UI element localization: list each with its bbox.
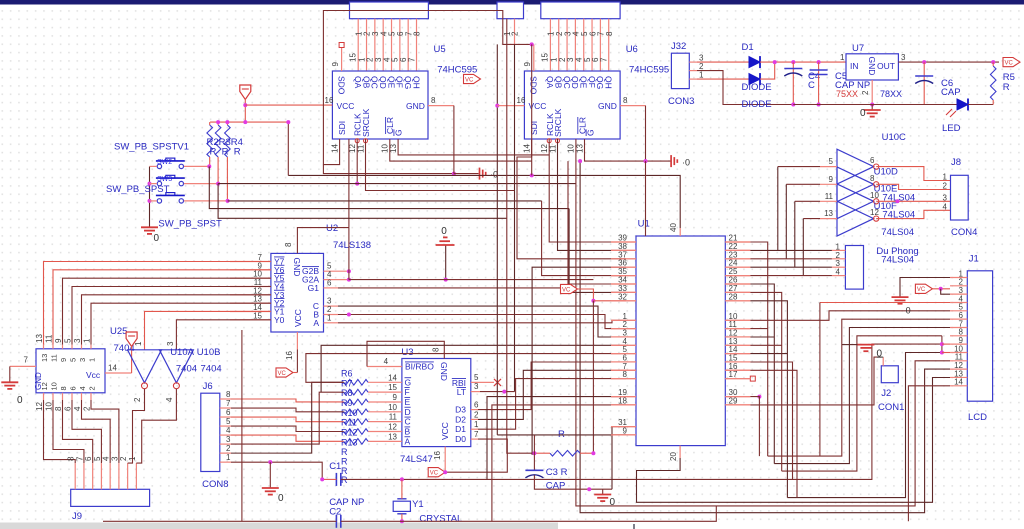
power flag near U5	[464, 74, 481, 83]
svg-text:U2: U2	[326, 223, 338, 234]
inverter U10E 74LS04	[837, 184, 879, 219]
svg-text:12: 12	[35, 402, 44, 411]
wire U2 C row to U1 pin3	[338, 306, 626, 337]
svg-text:CON3: CON3	[668, 96, 694, 107]
svg-text:5: 5	[829, 157, 834, 166]
junction C1 left node	[320, 477, 324, 481]
ground symbol at U7	[864, 110, 881, 117]
svg-text:14: 14	[522, 144, 531, 153]
wire U25 flag stem	[131, 346, 133, 374]
resistor R8	[344, 399, 368, 405]
junction C4 top	[791, 60, 795, 64]
svg-text:U7: U7	[852, 43, 864, 54]
svg-text:8: 8	[413, 31, 422, 36]
wire U5 G down	[398, 139, 549, 155]
junction switch bus row2	[148, 182, 152, 186]
wire U1 pin5 riser to R6 G row	[306, 354, 626, 383]
J2 pin1 stub	[882, 357, 884, 366]
wire SW1 drop branch	[209, 166, 569, 208]
junction pin32 node	[591, 299, 595, 303]
svg-text:U3: U3	[401, 347, 413, 358]
svg-text:14: 14	[954, 378, 963, 387]
svg-text:R13: R13	[341, 437, 358, 447]
svg-text:8: 8	[226, 390, 231, 399]
svg-text:2: 2	[83, 406, 92, 411]
junction SW1/R2	[207, 164, 211, 168]
wire U25 pin 8 to J9	[63, 400, 93, 463]
wire J6 pin4 to resistor	[231, 435, 344, 441]
inverter U10A 7404	[128, 350, 162, 389]
svg-text:5: 5	[93, 456, 102, 461]
capacitor C1 plates	[336, 473, 340, 486]
svg-text:10: 10	[870, 191, 879, 200]
wire J1 pin1 to ground	[900, 278, 950, 298]
junction gnd rail	[587, 487, 591, 491]
svg-text:IN: IN	[850, 61, 859, 71]
svg-text:J32: J32	[671, 41, 686, 52]
svg-text:0: 0	[610, 497, 616, 508]
SW2 right stub	[184, 183, 218, 185]
wire U1 pin25 to Du Phong	[750, 275, 832, 277]
svg-text:74LS04: 74LS04	[881, 254, 914, 265]
svg-text:VC: VC	[278, 371, 287, 377]
wire R left lead	[534, 452, 550, 454]
connector P3 pin 6 wire to U6	[591, 19, 593, 71]
svg-text:8: 8	[54, 406, 63, 411]
wire U6 G row tap to U1 pin34	[568, 161, 626, 284]
svg-text:SRCLK: SRCLK	[553, 108, 563, 137]
svg-text:14: 14	[388, 373, 397, 382]
wire U1 pin14 branch	[750, 353, 787, 355]
U1 pin17 no-connect	[750, 376, 755, 381]
svg-text:3: 3	[901, 53, 906, 62]
wire flag to J1 pin2	[932, 288, 950, 290]
inverter U10B 7404	[159, 350, 193, 389]
svg-text:1: 1	[474, 420, 479, 429]
ground symbol inverted on G2A row	[436, 237, 455, 245]
wire U1 pin4 riser to R7 F row	[321, 345, 626, 392]
wire U6 GND drop	[645, 106, 647, 162]
svg-text:D1: D1	[742, 42, 754, 53]
connector P1 pin 1 wire to U5	[357, 19, 359, 71]
capacitor C5	[810, 70, 828, 75]
connector P3 pin 3 wire to U6	[566, 19, 568, 71]
svg-text:D3: D3	[455, 405, 466, 415]
svg-text:74LS47: 74LS47	[400, 454, 433, 465]
sheet top border bar	[0, 0, 1024, 5]
svg-text:Y1: Y1	[412, 499, 424, 510]
U2 VCC pin16 stub	[296, 332, 298, 350]
wire flag stem	[244, 99, 246, 123]
svg-text:13: 13	[35, 334, 44, 343]
connector P1 pin 4 wire to U5	[382, 19, 384, 71]
wire U1 pin9 row to C3 vertical	[497, 434, 626, 436]
wire U2 A row to U1 pin1	[338, 320, 626, 323]
wire U5 GND down	[453, 106, 455, 174]
wire U5 RCLK down	[356, 139, 358, 184]
svg-text:A: A	[313, 318, 319, 328]
svg-text:VCC: VCC	[337, 101, 355, 111]
svg-text:U10D: U10D	[874, 167, 898, 178]
wire U1 pin20 net	[637, 378, 951, 503]
wire U3 D0 to VCC node	[445, 439, 507, 472]
wire R3 top lead	[217, 122, 219, 125]
wire U1 pin23 to Du Phong	[750, 258, 832, 260]
svg-text:6: 6	[84, 456, 93, 461]
U5 clock pin bubbles	[355, 139, 367, 143]
svg-text:4: 4	[943, 202, 948, 211]
svg-text:6: 6	[69, 386, 78, 390]
svg-text:DIODE: DIODE	[742, 82, 772, 93]
wire C6 vertical	[923, 62, 925, 104]
svg-text:CON8: CON8	[202, 479, 228, 490]
junction R left	[532, 451, 536, 455]
svg-text:GND: GND	[439, 362, 449, 381]
svg-text:0: 0	[278, 493, 284, 504]
connector P1 pin 7 wire to U5	[407, 19, 409, 71]
svg-text:J8: J8	[951, 157, 961, 168]
wire SW2 drop branch	[218, 184, 507, 219]
wire nest M2 to J1 pin7	[774, 328, 950, 464]
wire U7 gnd drop	[871, 105, 873, 111]
svg-text:J1: J1	[969, 253, 979, 264]
svg-text:SDI: SDI	[337, 121, 347, 135]
wire gnd stem	[602, 489, 604, 494]
svg-text:7: 7	[24, 356, 29, 365]
wire bracket to pin10	[942, 352, 950, 354]
wire R right lead	[580, 452, 593, 454]
wire C3 vertical top	[533, 435, 535, 470]
wire VCC bus to resistors	[210, 121, 288, 123]
U6 GND pin8 stub	[620, 105, 645, 107]
U3 VCC pin16 stub	[444, 447, 446, 473]
U1 right pins	[725, 234, 750, 406]
junction switch bus row3	[148, 199, 152, 203]
wire VCC to U5 pin16	[245, 104, 332, 106]
svg-text:7: 7	[226, 399, 231, 408]
U25 pin14 stub	[105, 372, 132, 374]
wire stem to ground below J6	[269, 462, 271, 488]
resistor R10	[344, 419, 368, 425]
svg-text:C: C	[405, 417, 411, 427]
connector P3 (8-pin header above U6)	[541, 2, 620, 19]
svg-text:D1: D1	[455, 424, 466, 434]
SW2 left stub	[150, 183, 157, 185]
svg-text:GND: GND	[406, 101, 425, 111]
svg-text:18: 18	[618, 396, 627, 405]
svg-text:2: 2	[226, 444, 231, 453]
svg-text:R9: R9	[341, 398, 353, 408]
junction C5 bottom	[817, 103, 821, 107]
wire D1 cathode join	[760, 61, 793, 63]
connector P1 (8-pin header above U5)	[350, 2, 429, 19]
wire J6 pin7 to resistor	[231, 408, 344, 412]
wire gnd stem near J2	[842, 344, 858, 346]
U5 pin name labels	[336, 76, 424, 137]
wire SW3 row right	[228, 200, 542, 202]
wire inverter feeder vertical 2	[785, 184, 787, 258]
svg-text:10: 10	[388, 403, 397, 412]
connector J8 body	[951, 175, 969, 220]
svg-text:U10B: U10B	[197, 347, 221, 358]
svg-text:U10C: U10C	[882, 132, 906, 143]
svg-text:13: 13	[575, 144, 584, 153]
connector P1 pin 2 wire to U5	[366, 19, 368, 71]
wire U2 row 13 to U25	[91, 303, 271, 345]
svg-text:8: 8	[431, 96, 436, 105]
svg-text:1: 1	[327, 313, 332, 322]
svg-text:9: 9	[829, 175, 834, 184]
wire D2 cathode up	[760, 62, 775, 79]
wire U10D input from U1 area	[778, 166, 820, 168]
junction G2A ground stem	[444, 278, 448, 282]
svg-text:2: 2	[119, 456, 128, 461]
wire conn2 pin1 vertical	[531, 44, 533, 175]
wire J32 pin1 to D2	[697, 78, 749, 80]
wire drop from U6 G line	[580, 161, 950, 513]
wire U3 D1 to U1 pin8	[478, 379, 626, 430]
junction crystal top node	[400, 477, 404, 481]
wire nest M4 to J1 pin9 bracket	[793, 344, 942, 479]
wire U3 pin4 to GND pin8 loop	[367, 341, 444, 366]
resistor R9	[344, 409, 368, 415]
wire flag to pin32	[578, 289, 594, 301]
junction VCC bus drop	[286, 120, 290, 124]
svg-text:A: A	[405, 436, 411, 446]
wire flag to VCC stub	[293, 372, 297, 374]
svg-text:5: 5	[69, 358, 78, 362]
U3 pin3 LT	[457, 382, 480, 397]
wire switch ground bus	[149, 166, 151, 227]
ground symbol below switches	[141, 227, 158, 234]
svg-text:8: 8	[284, 242, 293, 247]
svg-text:9: 9	[523, 61, 532, 66]
wire inverter out10 to J8 pin3	[876, 200, 950, 202]
wire U2 vertical from VCC-drop to pin4	[348, 228, 350, 280]
wire inverter feeder vertical 1	[777, 167, 779, 251]
svg-text:40: 40	[669, 223, 678, 232]
svg-text:CON4: CON4	[951, 227, 977, 238]
svg-text:7404: 7404	[201, 364, 222, 375]
bottom gray strip	[0, 523, 558, 529]
wire vertical to U1 top	[645, 161, 647, 236]
svg-text:7: 7	[75, 456, 84, 461]
wire R5 bottom lead	[992, 100, 994, 105]
svg-text:16: 16	[433, 451, 442, 460]
junction C5 top	[817, 60, 821, 64]
wire J6 pin2 riser	[231, 382, 344, 453]
U1 pin stub overlay	[611, 242, 750, 435]
junction bus mid	[243, 120, 247, 124]
ground symbol bottom center	[594, 495, 611, 502]
svg-text:74LS138: 74LS138	[333, 240, 371, 251]
U25 pin7 stub	[10, 365, 36, 367]
svg-text:R11: R11	[341, 418, 357, 428]
wire U5 SDI loop	[323, 11, 531, 165]
svg-text:J6: J6	[203, 381, 213, 392]
wire U25 pin 4 to J9	[82, 400, 111, 463]
svg-text:8: 8	[623, 370, 628, 379]
U25 top pins	[35, 334, 97, 362]
ground symbol near J2	[857, 345, 874, 352]
IC U25 7404 power block body	[36, 349, 105, 393]
J2 pin1 tick	[877, 356, 883, 358]
SW3 right stub	[184, 200, 228, 202]
svg-text:6: 6	[474, 401, 479, 410]
svg-text:0: 0	[906, 306, 911, 316]
svg-text:8: 8	[870, 174, 875, 183]
wire inverter feeder vertical 3	[794, 201, 796, 267]
svg-text:2: 2	[861, 90, 870, 95]
U1 pin20 stub	[679, 446, 681, 458]
resistor R12	[344, 439, 368, 445]
wire J1 pin2 to pin3	[941, 289, 950, 294]
svg-text:1: 1	[840, 53, 845, 62]
ground symbol at U25 pin7	[1, 382, 18, 389]
connector P3 pin 1 wire to U6	[549, 19, 551, 71]
svg-text:D: D	[405, 407, 411, 417]
wire J6 pin5 to resistor	[231, 426, 344, 431]
svg-text:3: 3	[226, 435, 231, 444]
svg-text:D0: D0	[455, 434, 466, 444]
junction U2 B row	[347, 313, 351, 317]
svg-text:9: 9	[59, 358, 68, 362]
connector P1 pin 6 wire to U5	[399, 19, 401, 71]
svg-text:G: G	[586, 129, 596, 136]
U3 left pins G-A	[368, 373, 411, 446]
junction flag stem/bus	[243, 103, 247, 107]
U6 pin 9 SDO stub	[533, 44, 535, 71]
svg-text:4: 4	[226, 426, 231, 435]
wire C1 left	[322, 478, 336, 480]
junction on U6 G line	[644, 159, 648, 163]
svg-text:R12: R12	[341, 428, 358, 438]
wire vertical into U1 pin1	[514, 44, 516, 391]
svg-text:R7: R7	[341, 378, 353, 388]
junction R4 top	[225, 120, 229, 124]
wire U25 gnd	[9, 366, 11, 382]
wire U1 pin13 branch	[750, 344, 781, 346]
bottom tick mark	[633, 524, 635, 529]
svg-text:74HC595: 74HC595	[629, 65, 669, 76]
svg-text:17: 17	[729, 370, 738, 379]
svg-text:R: R	[341, 475, 348, 485]
ground symbol at J1 pin1	[892, 297, 909, 304]
wire SW1 net to U1 pin33	[569, 209, 626, 293]
svg-text:16: 16	[285, 351, 294, 360]
svg-text:13: 13	[388, 432, 397, 441]
svg-text:U25: U25	[110, 326, 127, 337]
IC U2 74LS138 body	[271, 253, 324, 332]
R6-R13 designators and values	[341, 369, 358, 486]
capacitor C3	[525, 470, 543, 478]
svg-text:J2: J2	[881, 388, 891, 399]
wire nest M3 to J1 pin8	[782, 336, 942, 471]
svg-text:SW_PB_SPST: SW_PB_SPST	[106, 184, 170, 195]
svg-text:2: 2	[511, 31, 520, 36]
U5 pin 9 SDO stub	[341, 47, 343, 71]
svg-text:1: 1	[83, 338, 92, 343]
wire pin32 row	[593, 300, 626, 302]
svg-text:4: 4	[836, 268, 841, 277]
power flag near U1 pin32	[561, 284, 578, 293]
junction on out10 wire	[896, 199, 900, 203]
svg-text:4: 4	[78, 386, 87, 390]
U3 pin4 BI/RBO	[367, 357, 434, 372]
U6 pin name labels	[529, 76, 617, 137]
junction rail/conn2 vertical	[530, 173, 534, 177]
svg-text:2: 2	[88, 386, 97, 390]
svg-text:9: 9	[54, 338, 63, 343]
resistor R11	[344, 429, 368, 435]
U2 right pins G2B G2A G1 C B A	[302, 262, 349, 328]
svg-text:VCC: VCC	[440, 422, 450, 440]
wire U2 Y0 row to inverter U10B	[176, 320, 271, 350]
svg-text:0: 0	[441, 226, 447, 237]
svg-text:7: 7	[407, 57, 416, 62]
junction U2 pin5	[347, 269, 351, 273]
wire U1 pin10 to J1 pin5 jog	[750, 311, 950, 321]
svg-text:U6: U6	[626, 44, 638, 55]
connector P1 pin 5 wire to U5	[391, 19, 393, 71]
resistor R4	[225, 125, 231, 157]
wire U2 G2A row right	[349, 279, 594, 281]
svg-text:1: 1	[943, 173, 948, 182]
wire SW3 net to U1 pin35	[542, 201, 626, 276]
svg-text:11: 11	[389, 413, 398, 422]
svg-text:7404: 7404	[176, 364, 197, 375]
power flag at U3 VCC	[428, 468, 445, 477]
svg-text:9: 9	[623, 426, 628, 435]
svg-text:SW_PB_SPSTV1: SW_PB_SPSTV1	[114, 142, 189, 153]
wire J1 pins 8-10 bracket	[941, 336, 943, 353]
diode D1 second element	[749, 73, 760, 85]
wire J6 pin3 riser	[231, 392, 344, 444]
svg-text:B: B	[405, 427, 411, 437]
svg-text:1: 1	[699, 71, 704, 80]
svg-text:5: 5	[64, 338, 73, 343]
switch SW3 SW_PB_SPST	[156, 193, 185, 203]
svg-text:3: 3	[73, 338, 82, 343]
Du Phong pins	[832, 242, 846, 276]
svg-text:6: 6	[327, 278, 332, 287]
svg-text:C3 R: C3 R	[546, 467, 568, 478]
U5 GND pin8 stub	[428, 105, 454, 107]
junction bracket pin10	[940, 351, 944, 355]
svg-text:15: 15	[253, 311, 262, 320]
wire J1 pin4 row	[820, 302, 950, 304]
svg-text:10: 10	[45, 402, 54, 411]
wire U3 D3 to U1 pin6	[478, 362, 626, 410]
svg-text:5: 5	[474, 373, 479, 382]
connector P3 pin 7 wire to U6	[599, 19, 601, 71]
svg-text:U10A: U10A	[170, 347, 194, 358]
wire crystal bottom lead	[401, 514, 403, 522]
svg-text:4: 4	[384, 357, 389, 366]
wire SW2 row to right	[218, 183, 576, 185]
connector J6 body	[201, 393, 220, 471]
ground symbol sideways near U5	[480, 168, 486, 180]
diode D1	[749, 56, 760, 68]
svg-text:R R R: R R R	[210, 147, 241, 158]
U7 pin2 stub	[871, 80, 873, 105]
wire J1 pin14 riser	[908, 386, 950, 522]
IC U1 body	[636, 236, 725, 446]
wire U10E input	[786, 183, 820, 185]
svg-text:12: 12	[40, 382, 49, 390]
junction R3 top	[216, 120, 220, 124]
svg-text:7: 7	[474, 430, 479, 439]
